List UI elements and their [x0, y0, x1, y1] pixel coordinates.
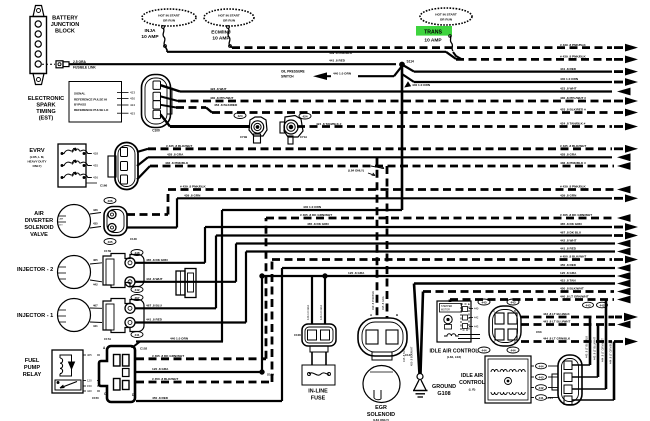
svg-text:# 439 .8 PNK/BLK: # 439 .8 PNK/BLK	[560, 43, 587, 47]
svg-text:DIVERTER: DIVERTER	[25, 218, 53, 224]
svg-text:# 450 .8 BLK/WHT: # 450 .8 BLK/WHT	[152, 377, 178, 381]
svg-text:442 .8 WHT: 442 .8 WHT	[560, 239, 577, 243]
svg-text:440: 440	[474, 307, 479, 311]
svg-text:428: 428	[93, 152, 98, 156]
svg-text:441: 441	[134, 333, 139, 337]
wire 120 GRA riser from S105	[260, 271, 631, 372]
injector 2 body	[58, 256, 91, 289]
svg-text:443: 443	[538, 375, 543, 379]
wire 467 BLU injector 1	[135, 304, 216, 309]
svg-text:150: 150	[87, 384, 92, 388]
connector C148 (air diverter)	[104, 207, 137, 242]
svg-text:450 .8 RED: 450 .8 RED	[560, 263, 577, 267]
svg-text:441: 441	[93, 324, 98, 328]
svg-text:120-1.0 GRA: 120-1.0 GRA	[306, 305, 310, 320]
svg-text:440 1.0 ORN: 440 1.0 ORN	[412, 83, 431, 87]
svg-text:INJECTOR - 2: INJECTOR - 2	[17, 267, 53, 273]
svg-text:GROUND: GROUND	[432, 384, 456, 390]
svg-text:439 .8 GRN: 439 .8 GRN	[184, 193, 201, 197]
svg-text:415 .8 TAN: 415 .8 TAN	[402, 349, 406, 362]
label idle air control L84 L03	[429, 349, 479, 360]
svg-text:CONTROL: CONTROL	[459, 380, 485, 386]
svg-text:AIR: AIR	[34, 211, 44, 217]
svg-text:467 .8 BLU: 467 .8 BLU	[146, 304, 163, 308]
svg-text:ONLY): ONLY)	[32, 164, 41, 168]
label EGR solenoid	[367, 405, 395, 421]
svg-text:AIR: AIR	[60, 218, 64, 221]
svg-text:439 .8 PNK/BLK: 439 .8 PNK/BLK	[371, 291, 375, 310]
svg-text:FUSE: FUSE	[311, 396, 326, 402]
wire 465 DK GRN riser to row	[205, 222, 638, 263]
connector C108	[294, 324, 336, 352]
wire 440 ORN from S114 to right arrow	[402, 74, 638, 86]
svg-text:444 .8 LT GRN/BLK: 444 .8 LT GRN/BLK	[543, 337, 571, 341]
C104 riser wires to ECM	[572, 300, 614, 401]
svg-text:430 .8 PPL/WHT: 430 .8 PPL/WHT	[210, 96, 233, 100]
label EVRV	[27, 148, 46, 168]
svg-text:442: 442	[134, 288, 139, 292]
fuse TRANS 10 AMP (green highlight) with HOT IN START OR RUN banner	[416, 8, 472, 51]
EVRV solenoid box	[58, 144, 91, 187]
svg-text:MOTOR: MOTOR	[441, 308, 450, 311]
svg-text:(L84, L03): (L84, L03)	[447, 355, 461, 359]
svg-text:120: 120	[87, 379, 92, 383]
svg-text:VALVE: VALVE	[30, 232, 48, 238]
svg-text:# 435 .8 BLK/WHT: # 435 .8 BLK/WHT	[166, 144, 192, 148]
svg-text:441: 441	[538, 396, 543, 400]
svg-text:436: 436	[93, 208, 98, 212]
connector C17B (injector 2)	[103, 249, 144, 288]
svg-text:443: 443	[510, 300, 515, 304]
wire 436 PNK/BLK EVRV	[137, 161, 631, 180]
svg-text:·: ·	[156, 95, 157, 98]
label injector 2	[17, 267, 53, 273]
svg-text:# 450 .8 BLK/WHT: # 450 .8 BLK/WHT	[560, 255, 586, 259]
svg-text:REFERENCE PULSE HI: REFERENCE PULSE HI	[74, 98, 107, 102]
wire 441 RED injector 1	[135, 318, 246, 323]
svg-text:# 439 .8 PNK/BLK: # 439 .8 PNK/BLK	[560, 55, 587, 59]
injector 1 pin leads	[90, 303, 102, 328]
injector 1 body	[58, 299, 91, 332]
svg-text:443: 443	[474, 325, 479, 329]
fuse ECM/INJ 10 AMP with HOT IN START OR RUN banner	[204, 9, 254, 48]
svg-text:442 .8 WHT: 442 .8 WHT	[146, 277, 163, 281]
svg-text:# 439 .8 PNK/BLK: # 439 .8 PNK/BLK	[180, 185, 207, 189]
connector C63 (idle air control)	[489, 306, 542, 346]
wire from INJA fuse (441 RED / 439 PNK BLK)	[167, 52, 456, 59]
svg-text:442: 442	[599, 303, 604, 307]
svg-text:HOT IN START: HOT IN START	[218, 14, 240, 18]
svg-text:PUMP: PUMP	[24, 365, 40, 371]
svg-text:465 .8 DK GRN: 465 .8 DK GRN	[307, 222, 329, 226]
svg-text:REFERENCE PULSE LO: REFERENCE PULSE LO	[74, 108, 109, 112]
svg-text:2.5 ORA: 2.5 ORA	[73, 60, 86, 64]
stepper pin tags 440 442 443	[458, 307, 480, 339]
svg-text:10 AMP: 10 AMP	[424, 38, 442, 44]
svg-text:IN-LINE: IN-LINE	[308, 389, 328, 395]
fusible link connector	[42, 61, 69, 68]
IAC pin tags 444 443 442 441	[531, 363, 558, 400]
svg-text:C102: C102	[140, 347, 148, 351]
connector C108 risers (120 GRA)	[306, 276, 325, 324]
svg-text:424: 424	[130, 103, 135, 107]
wire 423 WHT EST pin to left-arrow row	[161, 85, 631, 95]
wire 439 PNK/BLK from ECM/INJ fuse	[232, 43, 638, 52]
svg-text:# 439 .8 PNK/BLK: # 439 .8 PNK/BLK	[560, 185, 587, 189]
tag 442 riser top	[597, 302, 608, 308]
svg-text:415 .8 TAN: 415 .8 TAN	[560, 279, 576, 283]
svg-text:442: 442	[93, 283, 98, 287]
svg-text:SWITCH: SWITCH	[281, 75, 294, 79]
svg-text:443: 443	[585, 303, 590, 307]
svg-text:C100: C100	[152, 129, 160, 133]
label ground G108	[432, 384, 456, 397]
svg-text:465 .8 DK GRN: 465 .8 DK GRN	[560, 222, 582, 226]
svg-text:450 .8 BLK/WHT: 450 .8 BLK/WHT	[560, 287, 584, 291]
inline connector C71B	[240, 117, 267, 143]
svg-text:TRANS: TRANS	[424, 30, 442, 36]
svg-text:453: 453	[130, 111, 135, 115]
tag 424 (C71A)	[299, 113, 311, 119]
svg-text:453 .8 BLK/RED #: 453 .8 BLK/RED #	[560, 108, 586, 112]
svg-text:440 1.0 ORN: 440 1.0 ORN	[333, 72, 352, 76]
label 440 ORN at riser	[405, 82, 431, 87]
tag 448	[131, 250, 143, 256]
ground wires 415 TAN / 450 BLK/WHT	[402, 284, 423, 375]
svg-text:OIL PRESSURE: OIL PRESSURE	[281, 70, 305, 74]
wire 450 BLK/WHT from C102	[136, 255, 638, 382]
label air diverter solenoid valve	[24, 211, 53, 238]
svg-text:442: 442	[538, 386, 543, 390]
svg-text:441 .8 RED: 441 .8 RED	[329, 59, 346, 63]
svg-text:C108: C108	[294, 333, 301, 337]
svg-text:444: 444	[481, 348, 486, 352]
tag 441	[131, 332, 143, 338]
wire 2.5 ORA fusible link to S114	[69, 60, 396, 70]
tag 442	[131, 287, 143, 293]
fuse INJA 10 AMP with HOT IN START OR RUN banner	[141, 9, 196, 52]
svg-text:IDLE AIR CONTROL: IDLE AIR CONTROL	[429, 349, 479, 355]
svg-text:423: 423	[130, 91, 135, 95]
svg-text:435 .8 GRA: 435 .8 GRA	[381, 296, 385, 310]
label electronic spark timing	[28, 96, 64, 122]
svg-text:C71B: C71B	[240, 135, 247, 139]
svg-text:C166: C166	[100, 184, 108, 188]
oil pressure switch callout arrow	[281, 70, 352, 80]
svg-text:439 .8 GRN: 439 .8 GRN	[560, 194, 577, 198]
svg-text:A: A	[514, 340, 516, 344]
EVRV pin stubs 428 435 436	[86, 152, 98, 183]
svg-text:443 .8 LT BLU/WHT: 443 .8 LT BLU/WHT	[543, 320, 570, 324]
node S105	[260, 370, 275, 377]
svg-text:443 .8 LT BLU/BLK: 443 .8 LT BLU/BLK	[585, 336, 589, 358]
tag 443 riser top	[583, 302, 594, 308]
wire S114 riser down to 440 ORN distribution	[401, 65, 404, 211]
EST pin stubs 423 430 424 453	[117, 91, 135, 116]
svg-text:435: 435	[93, 222, 98, 226]
svg-text:10 AMP: 10 AMP	[141, 34, 159, 40]
svg-text:OR RUN: OR RUN	[223, 19, 236, 23]
svg-text:(L R): (L R)	[469, 388, 476, 392]
svg-text:C17A: C17A	[104, 337, 111, 341]
svg-text:C71A: C71A	[300, 135, 307, 139]
svg-text:442: 442	[474, 316, 479, 320]
svg-text:C104: C104	[546, 396, 553, 400]
in-line fuse	[302, 352, 335, 402]
svg-text:443 .8 LT BLU/WHT: 443 .8 LT BLU/WHT	[593, 336, 597, 360]
air diverter pin leads 436 435	[90, 208, 101, 228]
EGR riser wires (L84 only)	[371, 157, 387, 318]
svg-text:FUEL: FUEL	[25, 358, 40, 364]
wire 443 LT BLU/BLK from C63	[521, 312, 638, 321]
svg-text:440 1.0 ORN: 440 1.0 ORN	[170, 337, 189, 341]
connector C17A (injector 1)	[103, 299, 144, 342]
wire 441 RED riser to row	[246, 247, 631, 323]
node S114	[400, 60, 414, 67]
svg-text:IDLE AIR: IDLE AIR	[461, 373, 483, 379]
svg-text:436 .8 PNK/BLK #: 436 .8 PNK/BLK #	[560, 161, 586, 165]
svg-text:120 .8 GRA: 120 .8 GRA	[348, 271, 365, 275]
EGR solenoid body	[363, 366, 400, 403]
svg-text:444 .8 LT GRN/BLK: 444 .8 LT GRN/BLK	[609, 341, 613, 364]
svg-text:C17B: C17B	[104, 249, 111, 253]
connector C166 (EVRV)	[100, 143, 138, 190]
svg-text:# 465 .8 DK GRN/WHT: # 465 .8 DK GRN/WHT	[300, 213, 332, 217]
wire 440 ORN from S114 riser to C102 and EGR	[133, 205, 402, 347]
tag 435	[104, 239, 116, 245]
svg-text:EVRV: EVRV	[29, 148, 44, 154]
svg-text:435: 435	[93, 164, 98, 168]
wire 442 WHT riser to row	[236, 239, 631, 282]
svg-text:428 .8 GRA: 428 .8 GRA	[560, 153, 577, 157]
wire 450 BLK/WHT to ground	[423, 287, 631, 296]
svg-text:444 .8 LT GRN/WHT: 444 .8 LT GRN/WHT	[601, 338, 605, 362]
svg-text:439 .8 PNK/BLK: 439 .8 PNK/BLK	[329, 51, 353, 55]
svg-text:HEAVY DUTY: HEAVY DUTY	[27, 160, 46, 164]
svg-text:443 .8 LT BLU/BLK: 443 .8 LT BLU/BLK	[543, 312, 570, 316]
wire 120 GRA from C102 to S105	[136, 367, 262, 372]
tag 444 bottom right	[507, 347, 519, 353]
svg-text:# 465 .8 DK GRN/WHT: # 465 .8 DK GRN/WHT	[152, 354, 184, 358]
idle air control module box (L84 L03)	[437, 301, 471, 342]
svg-text:ELECTRONIC: ELECTRONIC	[28, 96, 64, 102]
svg-text:OR RUN: OR RUN	[163, 19, 176, 23]
tag 424	[234, 113, 246, 119]
injector 2 pin leads	[90, 258, 102, 286]
svg-text:FUSIBLE LINK: FUSIBLE LINK	[73, 66, 96, 70]
svg-text:436: 436	[107, 199, 112, 203]
connector C102 (fuel pump relay)	[99, 345, 148, 402]
wire 467 BLU riser to row	[216, 231, 638, 309]
connector C147 (EGR)	[358, 313, 412, 360]
svg-text:G108: G108	[437, 391, 450, 397]
svg-text:RELAY: RELAY	[23, 372, 42, 378]
label injector 1	[17, 313, 53, 319]
fuel pump relay box	[52, 350, 83, 393]
svg-text:440 .8 LT GRN/WHT: 440 .8 LT GRN/WHT	[560, 295, 589, 299]
svg-text:450 .8 RED: 450 .8 RED	[152, 396, 169, 400]
svg-text:TIMING: TIMING	[36, 109, 56, 115]
wire 465 DK GRN injector 2	[135, 258, 205, 263]
wire 435 BLK/WHT EVRV	[137, 144, 638, 153]
wire 428 GRA EVRV	[137, 152, 631, 166]
svg-text:JUNCTION: JUNCTION	[51, 22, 80, 28]
svg-text:(L84 ONLY): (L84 ONLY)	[348, 169, 364, 173]
svg-text:444: 444	[510, 348, 515, 352]
svg-text:436: 436	[93, 176, 98, 180]
svg-text:·: ·	[156, 84, 157, 87]
wire 424 TAN/BLK EST	[161, 114, 639, 130]
svg-text:HOT IN START: HOT IN START	[435, 13, 457, 17]
wire 415 TAN row to ground	[414, 279, 631, 288]
inline connector (injector harness)	[176, 269, 196, 298]
svg-text:HOT IN START: HOT IN START	[158, 14, 180, 18]
svg-text:436 .8 PNK/BLK: 436 .8 PNK/BLK	[165, 161, 189, 165]
wire 453 BLK/RED EST	[161, 103, 639, 116]
svg-text:·: ·	[156, 104, 157, 107]
svg-text:D: D	[514, 309, 516, 313]
label idle air control L R	[459, 373, 485, 392]
svg-text:BATTERY: BATTERY	[52, 16, 78, 22]
svg-text:SIGNAL: SIGNAL	[74, 92, 86, 96]
svg-text:430 .8 PPL/WHT #: 430 .8 PPL/WHT #	[560, 96, 586, 100]
tag 467	[131, 295, 143, 301]
svg-text:INJECTOR - 1: INJECTOR - 1	[17, 313, 53, 319]
svg-text:424 .8 TAN/BLK #: 424 .8 TAN/BLK #	[316, 122, 342, 126]
inline connector C71A	[280, 116, 307, 145]
tag 444 bottom left	[478, 347, 490, 353]
wire 439 PNK/BLK row from TRANS fuse	[453, 52, 638, 63]
tag 443 top left	[478, 299, 490, 305]
svg-text:# 465 .8 DK GRN/WHT: # 465 .8 DK GRN/WHT	[560, 213, 592, 217]
svg-text:DIV: DIV	[59, 224, 63, 226]
wire 442 WHT injector 2	[135, 277, 236, 282]
wire 439 PNK/BLK from air diverter (dashed riser then row)	[127, 185, 631, 215]
svg-text:423 .8 WHT: 423 .8 WHT	[210, 87, 227, 91]
wire 440 ORN oil pressure switch to S114	[358, 66, 402, 76]
svg-text:467: 467	[93, 303, 98, 307]
tag 443 top right	[507, 299, 519, 305]
svg-text:443: 443	[481, 300, 486, 304]
svg-text:(EST): (EST)	[39, 116, 54, 122]
ground G108 symbol	[413, 374, 428, 398]
battery junction block	[30, 6, 47, 85]
svg-text:120-1.0 GRA: 120-1.0 GRA	[319, 305, 323, 320]
svg-text:INJA: INJA	[145, 28, 156, 34]
label fuel pump relay	[23, 358, 42, 378]
svg-text:C63: C63	[536, 330, 542, 334]
svg-text:430: 430	[130, 97, 135, 101]
svg-text:SPARK: SPARK	[36, 103, 55, 109]
svg-text:120 .8 GRA: 120 .8 GRA	[560, 271, 577, 275]
wire 439 GRN from air diverter	[127, 193, 638, 227]
electronic spark timing (EST) module box	[69, 82, 122, 123]
svg-text:S114: S114	[407, 60, 414, 64]
svg-text:B: B	[493, 340, 495, 344]
svg-text:424 .8 TAN/BLK #: 424 .8 TAN/BLK #	[560, 122, 586, 126]
svg-text:BLOCK: BLOCK	[55, 29, 75, 35]
svg-text:467 .8 DK BLU: 467 .8 DK BLU	[560, 231, 582, 235]
svg-text:C148: C148	[130, 237, 137, 241]
svg-text:(LO5, L M,: (LO5, L M,	[30, 155, 45, 159]
wire 450 RED from C102	[136, 263, 631, 401]
svg-text:OR RUN: OR RUN	[440, 18, 453, 22]
connector C104	[546, 355, 582, 405]
svg-text:440 1.0 ORN: 440 1.0 ORN	[560, 77, 579, 81]
wire 443 LT BLU/WHT from C63	[521, 320, 631, 329]
tag 436	[104, 198, 116, 204]
idle air control motor box (L R)	[485, 356, 531, 403]
air diverter solenoid valve body	[58, 205, 91, 238]
svg-text:EGR: EGR	[375, 405, 387, 411]
svg-text:10 AMP: 10 AMP	[212, 36, 230, 42]
svg-text:SOLENOID: SOLENOID	[24, 225, 53, 231]
label L84 only with arrows	[348, 166, 384, 176]
svg-text:BYPASS: BYPASS	[74, 103, 86, 107]
label battery junction block	[51, 16, 80, 35]
svg-text:120 .8 GRA: 120 .8 GRA	[152, 367, 169, 371]
svg-text:441 .8 RED: 441 .8 RED	[560, 247, 577, 251]
svg-text:435: 435	[107, 240, 112, 244]
svg-text:440: 440	[87, 389, 92, 393]
wire 444 LT GRN/BLK from C63	[521, 337, 638, 346]
svg-text:440 1.0 ORN: 440 1.0 ORN	[303, 205, 322, 209]
svg-text:428 .8 GRA: 428 .8 GRA	[167, 152, 184, 156]
svg-text:444: 444	[538, 364, 543, 368]
svg-text:# 435 .8 BLK/WHT: # 435 .8 BLK/WHT	[560, 144, 586, 148]
svg-text:465 .8 DK GRN: 465 .8 DK GRN	[146, 258, 168, 262]
wire 465 DK GRN/WHT from C102	[136, 213, 631, 359]
svg-text:441 .8 RED: 441 .8 RED	[146, 318, 163, 322]
svg-text:450 .8 BLK/WHT: 450 .8 BLK/WHT	[410, 346, 414, 366]
svg-text:423 .8 WHT: 423 .8 WHT	[560, 87, 577, 91]
wire 430 PPL/WHT EST	[161, 96, 639, 105]
svg-text:C150: C150	[92, 396, 99, 400]
svg-text:465: 465	[93, 258, 98, 262]
connector C100 (EST)	[142, 75, 173, 133]
svg-text:453 .8 BLK/RED: 453 .8 BLK/RED	[214, 103, 238, 107]
fuel pump relay pin tags	[83, 353, 100, 400]
svg-text:465: 465	[87, 353, 92, 357]
svg-text:C: C	[493, 309, 495, 313]
svg-text:424: 424	[302, 114, 307, 118]
svg-text:441 .8 RED: 441 .8 RED	[560, 67, 577, 71]
wire 440 LT GRN/WHT row	[450, 295, 631, 304]
svg-text:424: 424	[237, 114, 242, 118]
svg-text:·: ·	[156, 113, 157, 116]
wire 441 RED from S114 to right arrow	[402, 65, 638, 76]
